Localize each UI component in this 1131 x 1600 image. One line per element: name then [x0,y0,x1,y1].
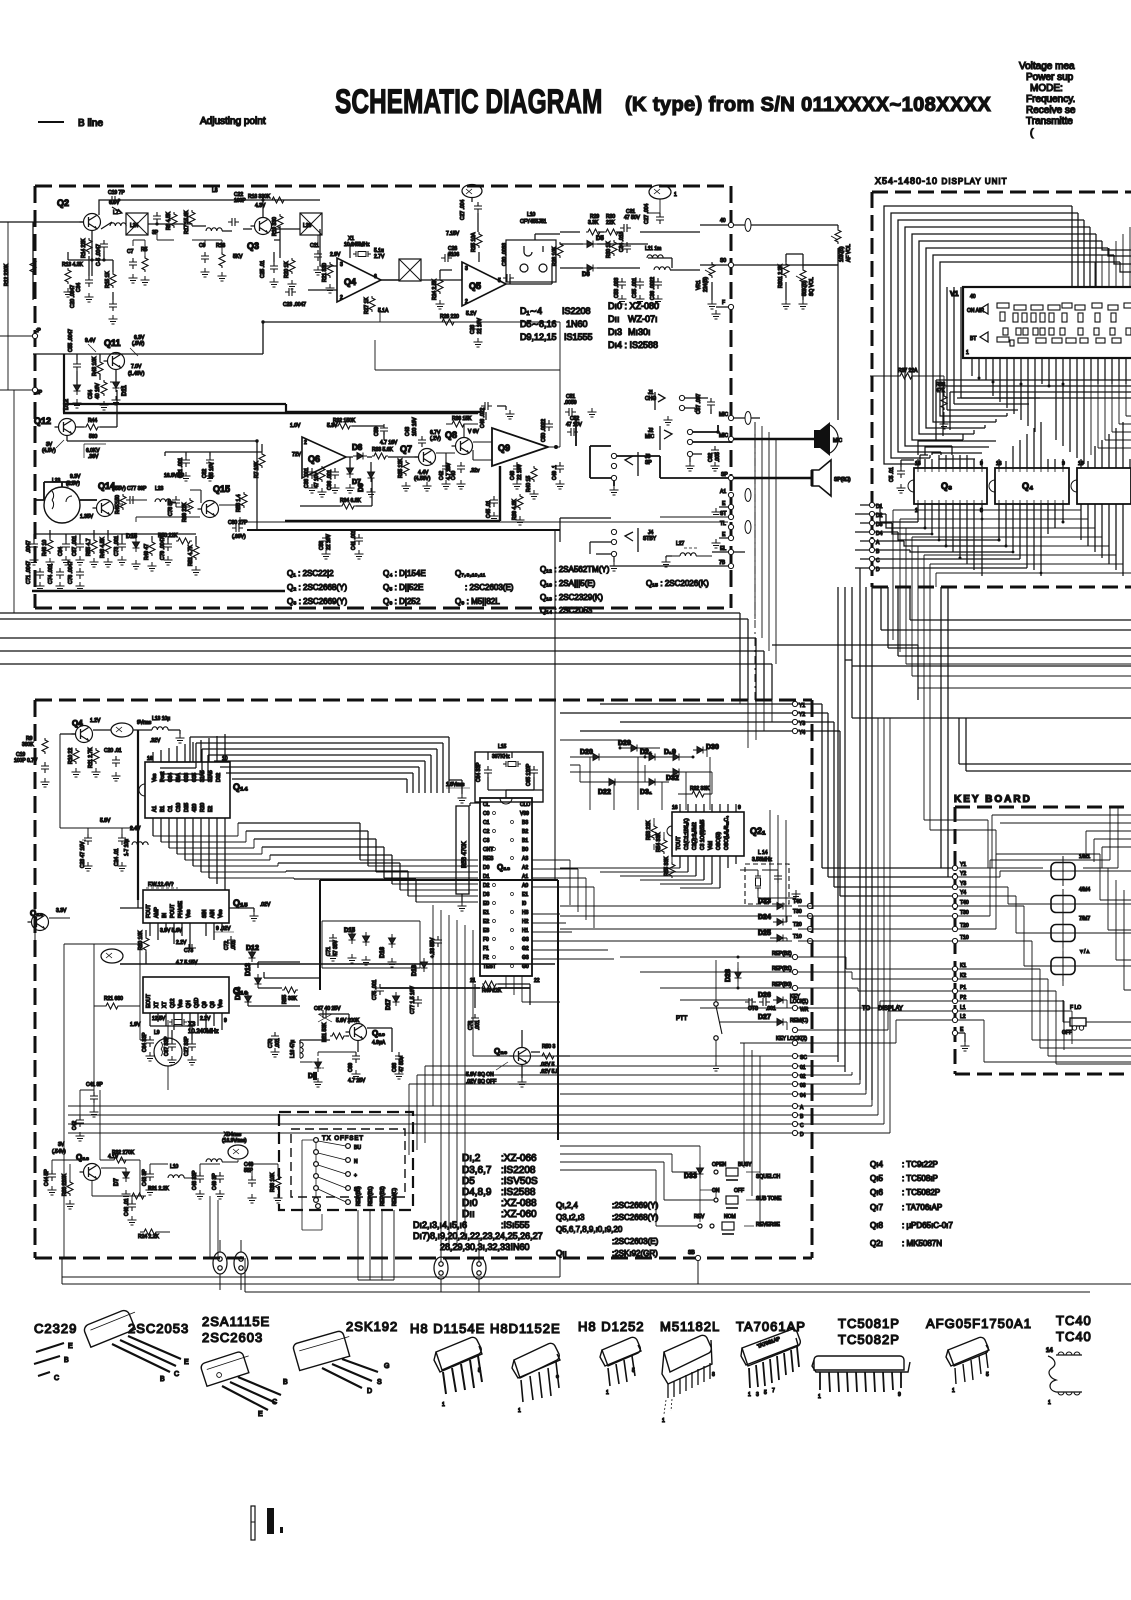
svg-text:F: F [722,300,725,306]
svg-text:AIN: AIN [210,909,216,918]
wire Y4 route [798,731,952,896]
stub kL1 [952,1008,957,1013]
ground ie [513,480,522,489]
coil L10b [206,1159,222,1162]
svg-text:C27 33P: C27 33P [184,1036,190,1056]
thick vertical x320 [319,880,321,990]
diode D31 [645,779,659,786]
svg-text:C1: C1 [168,805,174,812]
wire REP rows bend down [798,957,952,1043]
svg-text:C79 .0047: C79 .0047 [160,537,166,560]
svg-text:28,29,30,3ı,32,33: 28,29,30,3ı,32,33 [440,1242,510,1252]
svg-text:D4,8,9: D4,8,9 [462,1187,492,1198]
svg-text:R33 5.6K: R33 5.6K [372,447,394,453]
svg-text::2SC2669(Y): :2SC2669(Y) [612,1201,659,1210]
wire Q3 emitter [272,226,280,262]
svg-text:C27 .004: C27 .004 [460,199,466,220]
svg-text:L13 10μ: L13 10μ [152,716,170,722]
svg-text:C05: C05 [192,773,198,782]
svg-text:C71: C71 [326,947,332,956]
Q21 notch [667,826,672,836]
ground R301 [782,300,791,309]
fold mark right [267,1508,274,1534]
svg-text:Dı0: Dı0 [462,1198,478,1209]
svg-text:L1: L1 [960,1005,966,1011]
svg-text:MIC: MIC [719,433,729,439]
svg-text:Q12: Q12 [170,998,176,1008]
ground R20 [288,280,297,289]
svg-text:40: 40 [720,218,726,224]
wire displaybus r7 [930,504,1123,564]
diode D19 [669,754,683,761]
connector circle col b3 [346,1172,351,1177]
stub J4a [611,529,616,534]
svg-text:(16.9Vrms): (16.9Vrms) [222,1138,247,1144]
wire Q2 base column [89,231,113,300]
svg-text:F2: F2 [483,955,489,961]
svg-text:C10: C10 [176,803,182,812]
svg-text:A3: A3 [522,856,528,862]
ground hd [346,484,355,493]
ground fi [148,562,157,571]
wire heavy path Q19 [300,1040,356,1062]
wire q16 bottom [150,1026,192,1040]
stub kK2 [952,976,957,981]
wire bus bottom 1 [62,1276,560,1278]
ground L14 [792,890,801,899]
svg-text:C03: C03 [184,773,190,782]
svg-text:WZ-07ı: WZ-07ı [628,314,658,324]
diode D22 [605,779,619,786]
svg-text:2: 2 [304,440,307,446]
svg-text:TC5082P: TC5082P [838,1332,900,1347]
ground R13 [64,288,73,297]
svg-text:B line: B line [78,118,103,129]
wire Q3 to L26 [272,228,300,230]
wire vdrop f [473,930,560,1056]
wire bus 4 [0,651,764,700]
svg-text:C68: C68 [392,1063,398,1072]
svg-text:Q₃: Q₃ [941,481,952,491]
svg-text:47 10V: 47 10V [566,422,583,428]
vertical keyboard feed a [940,587,942,868]
coil L23b [155,499,171,502]
wire displaybus r2 [900,504,1088,519]
svg-text:C: C [174,1371,179,1378]
svg-text:E1: E1 [483,910,489,916]
connector circle col b1 [346,1144,351,1149]
stub J4b [611,539,616,544]
svg-text:1: 1 [518,1408,521,1414]
svg-text:R51 4.7K: R51 4.7K [188,544,194,566]
svg-text:1.35V: 1.35V [80,514,94,520]
stub J2a [687,429,692,434]
svg-text:7: 7 [772,1388,775,1394]
svg-text:SQ VOL: SQ VOL [809,277,815,296]
svg-text:C35 .001: C35 .001 [632,277,638,298]
svg-text:Y1: Y1 [960,862,966,868]
svg-text:C64 33P: C64 33P [476,762,482,782]
ground fa [30,556,39,565]
stub J1b [679,405,684,410]
svg-text:C7: C7 [127,249,134,255]
wire left feed [0,221,84,223]
svg-text:SP(8Ω): SP(8Ω) [834,477,851,483]
svg-text:T40: T40 [793,899,802,905]
svg-text:R32 150K: R32 150K [333,418,356,424]
crystal X3 [169,1019,187,1025]
svg-text:R31 2.2K: R31 2.2K [148,1186,170,1192]
PLL unit dashed border left [34,700,37,1258]
wire connector drops [441,1240,479,1292]
svg-text:OSC(G): OSC(G) [716,832,722,850]
svg-text:Q2: Q2 [57,198,69,208]
svg-text:X54-1480-10 DISPLAY UNIT: X54-1480-10 DISPLAY UNIT [875,176,1008,186]
svg-text:: TC9ı22P: : TC9ı22P [902,1160,938,1169]
svg-text:D11: D11 [122,385,128,396]
svg-text:C71 .0047: C71 .0047 [26,561,32,584]
wire Y3 route [798,722,952,887]
ground Q15a [250,912,259,921]
opamp Q4 [337,258,381,302]
svg-text:Vdd: Vdd [708,841,714,850]
svg-text:D7: D7 [114,1178,120,1186]
svg-text:C23 .0047: C23 .0047 [283,302,306,308]
svg-text:EL: EL [720,546,726,552]
package M51182L [662,1335,712,1384]
diode D21 [645,754,659,761]
svg-text:QH: QH [186,1000,192,1008]
svg-text:: MK5087N: : MK5087N [902,1239,942,1248]
stub D2 pll [792,1072,797,1077]
stub J3a [611,453,616,458]
svg-text:2SK192: 2SK192 [346,1319,398,1334]
stub T40 [807,903,812,908]
wire PTT [715,960,717,1062]
svg-text:BT: BT [970,336,976,342]
svg-text:F1: F1 [483,946,489,952]
ground C34 [85,293,94,302]
diode D14 pll [245,992,252,1006]
package 2SK192 [292,1329,354,1371]
svg-text:3: 3 [465,266,468,272]
digit segments row1 [997,303,1131,322]
ground ha [308,484,317,493]
stub KEYLOCK1 [792,1005,797,1010]
svg-text:D27: D27 [758,1014,771,1021]
junction dots matrix [619,747,695,759]
svg-text:Qı7: Qı7 [870,1203,883,1212]
wire 7B net [610,565,728,567]
resistor R29 [586,229,602,235]
grounds left col 2 [90,1108,99,1117]
wire audio feed net [165,444,262,456]
thick R49 rail [380,987,530,989]
svg-text:7.15V: 7.15V [446,231,460,237]
diode D33 [697,1164,704,1178]
wire left vertical [32,222,34,300]
svg-text:Q₁₅: Q₁₅ [233,898,248,908]
svg-text:R11 2.7K: R11 2.7K [88,747,94,768]
svg-text:MODE:: MODE: [1030,83,1063,94]
svg-text:Frequency.: Frequency. [1026,94,1075,105]
svg-text:S0: S0 [720,258,726,264]
svg-text:OPEN: OPEN [712,1162,727,1168]
Q14 notch [139,784,145,796]
svg-text:.32V: .32V [150,738,161,744]
svg-text:3.9V 5.6V: 3.9V 5.6V [160,928,183,934]
svg-text:C48 33P: C48 33P [192,1170,198,1190]
transistor Q3 [251,218,272,235]
key button 2 [1043,889,1083,919]
svg-text:H8 D1154E: H8 D1154E [410,1321,485,1336]
svg-text:V 6V: V 6V [468,429,480,435]
svg-text:Q₃ : 2SC2669(Y): Q₃ : 2SC2669(Y) [287,597,348,606]
wire stair to Q18 pins [360,860,478,902]
wire bottom exit verticals [210,1196,218,1258]
thick rail B line [63,412,478,415]
svg-text:(4.5V): (4.5V) [42,448,56,454]
diode D28 vertical [735,968,742,982]
stub ST [728,514,733,519]
svg-text:C42: C42 [72,1121,78,1130]
wire bus 3 [0,638,756,700]
svg-text:22K: 22K [606,220,616,226]
svg-text:Q₁₃ : 2SC2329(K): Q₁₃ : 2SC2329(K) [540,593,603,602]
ground R24 [436,300,445,309]
svg-text:L10: L10 [170,1164,179,1170]
adjust arrow Q2 [112,207,122,214]
svg-text:T30: T30 [793,909,802,915]
svg-text:G3: G3 [522,937,529,943]
wire nest 7 [226,773,413,793]
wire x-links [133,232,222,256]
ground fg [118,556,127,565]
package TA7061AP [741,1329,800,1366]
wire nest 6 [220,767,419,793]
wire nest 1 [190,737,449,793]
svg-text:TX OFFSET: TX OFFSET [322,1136,364,1142]
wire bus bottom verticals [62,1258,698,1292]
ceramic filter L10 [506,240,556,282]
wire R37 net [870,376,944,420]
svg-text:+: + [354,1173,357,1179]
svg-text:R53 1.4: R53 1.4 [236,494,242,512]
wire kb exit r1 [1100,854,1131,900]
Q21 bottom pins [680,856,736,888]
svg-text::ISı555: :ISı555 [501,1220,530,1230]
svg-text:C19 7P: C19 7P [108,190,125,196]
resistor Rx2 [219,252,225,268]
svg-text:VR1: VR1 [696,280,702,290]
Q18 notch [500,798,512,804]
svg-text:CLO: CLO [520,802,530,808]
svg-text:AFG05F1750A1: AFG05F1750A1 [926,1316,1032,1331]
ground ga [36,582,45,591]
wire kb exit r2 [1108,868,1131,930]
wire left stub h [0,336,32,390]
svg-text:T30: T30 [960,910,969,916]
svg-text:2.4V: 2.4V [130,826,141,832]
svg-text:R5: R5 [141,247,148,253]
svg-text:22: 22 [534,978,540,984]
svg-text:D18: D18 [412,964,418,976]
ground x3 [201,268,210,277]
svg-text:Q8: Q8 [445,430,457,440]
wire loop L6 [919,241,1102,434]
crystal L14 [755,873,761,891]
svg-text:C49 3P: C49 3P [212,1173,218,1190]
svg-text:5KV: 5KV [233,254,243,260]
package TC40 side view [1048,1356,1056,1392]
wire nest 2 [196,743,443,793]
svg-text:.62V 5.5: .62V 5.5 [540,1069,559,1075]
connector circle col a3 [314,1162,319,1167]
coil L12 [654,267,670,270]
ground jc [490,512,499,521]
svg-text:Vss: Vss [178,999,184,1008]
svg-text:R50 3: R50 3 [542,1044,556,1050]
svg-text:9: 9 [898,1392,901,1398]
svg-text:C73 .001: C73 .001 [114,535,120,556]
fold mark left [251,1506,255,1540]
svg-text:D5: D5 [596,236,604,242]
stub 7B [728,563,733,568]
svg-text:8: 8 [712,1372,715,1378]
svg-text:A1: A1 [152,806,158,812]
wire band verticals extra [893,510,936,587]
wire bus bottom 2 [62,1283,1131,1285]
svg-text:5.2V: 5.2V [466,311,477,317]
svg-text:Pout: Pout [160,771,166,782]
svg-text:T40: T40 [960,900,969,906]
diode D27 [773,1019,787,1026]
svg-text:T10: T10 [960,935,969,941]
svg-text:5: 5 [478,1368,481,1374]
svg-text::IS2588: :IS2588 [501,1187,536,1198]
thick vertical feed [63,354,65,413]
svg-text:C2: C2 [483,829,490,835]
svg-text:D28: D28 [725,969,732,982]
svg-text:D8: D8 [352,443,363,452]
svg-text:B: B [283,1379,288,1386]
svg-text:5.8V: 5.8V [100,818,111,824]
wire bus 6 to keyboard [772,645,918,700]
svg-text:E3: E3 [483,928,489,934]
wire display right verticals [1095,227,1130,287]
svg-text:KEY BOARD: KEY BOARD [954,794,1032,805]
svg-text:C20 .01: C20 .01 [104,748,122,754]
svg-text:D16: D16 [380,946,386,958]
stub D4 display [869,529,874,534]
diode D8 [353,453,367,460]
wire displaybus r1 [893,504,1081,510]
coil L13 [152,727,168,730]
connector J5d [234,1252,248,1274]
wire R34 net [300,478,372,506]
wire Q3 top [205,200,320,218]
wire displaybus r6 [924,504,1116,555]
oval 40 [745,219,751,232]
svg-text:6: 6 [374,274,377,280]
svg-text:4.9μA: 4.9μA [372,1040,386,1046]
wire J2 thick [693,425,731,442]
svg-text:C43: C43 [405,427,411,436]
svg-text:E2: E2 [483,919,489,925]
package TO92 2SC2053 [83,1307,141,1348]
ground x1 [129,274,138,283]
diode D25 [773,935,787,942]
V1 bottom bus [936,380,1131,440]
svg-text:R20: R20 [200,803,206,812]
dotted legs M51182L [664,1399,672,1414]
stub MIC1 [728,415,733,420]
wire Q18 right exits [532,860,614,959]
IC Q21 body [672,812,744,856]
wire q13 nets [52,1160,278,1196]
ground ib [423,482,432,491]
svg-text:E: E [184,1359,189,1366]
svg-text:E0: E0 [483,901,489,907]
wire R26 net [380,310,520,322]
wire Q14 bottom fan [153,836,294,878]
svg-text:.36V: .36V [88,454,99,460]
thick rail D-box top [320,879,558,881]
svg-text:C2(J):3₁5M2: C2(J):3₁5M2 [692,822,698,850]
ground R38 [940,420,949,429]
svg-text:AMP: AMP [154,907,160,919]
ground fd [76,556,85,565]
wire stub rows long left [560,906,792,1043]
Q5 top pins [1081,422,1130,468]
svg-text:OSC(I₂6₁/6₃₂C₄: OSC(I₂6₁/6₃₂C₄ [724,816,730,850]
svg-text:Power sup: Power sup [1026,72,1074,83]
grounds pll tl [41,778,50,787]
stub B display [869,547,874,552]
connector circle col b5 [346,1200,351,1205]
stub EL [728,549,733,554]
oval A1 [745,489,751,502]
svg-text:IS2208: IS2208 [562,306,591,316]
svg-text:REVERSE: REVERSE [756,1222,781,1228]
svg-text:I0: I0 [522,901,526,907]
svg-text:420: 420 [192,803,198,812]
svg-text:G: G [384,1363,389,1370]
svg-text:: μPD65ıC-0ı7: : μPD65ıC-0ı7 [902,1221,953,1230]
svg-text:REP(B0): REP(B0) [356,1186,362,1206]
stub kT40 [952,903,957,908]
stub TL [728,524,733,529]
svg-text:100P: 100P [234,198,246,204]
svg-text:: TC508ıP: : TC508ıP [902,1174,938,1183]
PTT contact a [714,1002,718,1006]
svg-text:.001: .001 [766,1006,776,1012]
svg-text:1.0V: 1.0V [290,423,301,429]
svg-text:C46 .022: C46 .022 [480,407,486,428]
svg-text:R16: R16 [216,243,225,249]
legs D1154E [443,1356,482,1394]
ground C28 [474,338,483,347]
transistor Q15 [198,501,219,518]
svg-text:4.1V: 4.1V [108,1154,119,1160]
wire J4 [560,518,614,562]
ground F stub [712,310,721,319]
wire Q5 out [506,278,522,284]
stub KEYLOCK2 [792,1040,797,1045]
svg-text:REP(B0): REP(B0) [772,982,792,988]
diode D9 [368,468,375,482]
wire Q14 Q15 row [114,490,243,507]
